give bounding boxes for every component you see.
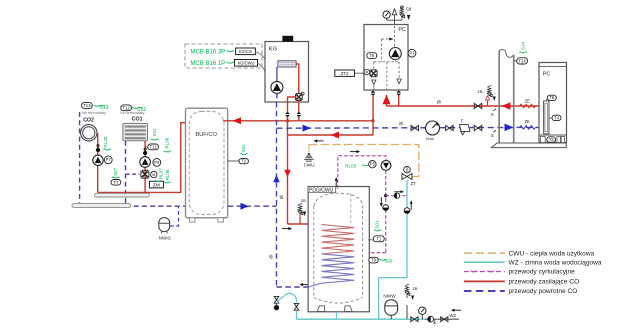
svg-text:S11: S11: [152, 128, 157, 136]
coil cold: [308, 254, 354, 287]
manifold: [387, 20, 402, 26]
valve return 1: [411, 125, 419, 130]
svg-text:Øi: Øi: [279, 195, 284, 199]
wire CO2 return: [79, 112, 81, 203]
arrow PC left port: [372, 80, 376, 85]
wire PC bottom header: [374, 60, 399, 90]
actuator ZM: [149, 181, 163, 188]
legend return line: [464, 290, 505, 292]
label RL07: [154, 168, 163, 182]
mixing valve ZT: [402, 166, 412, 179]
valve WZ: [441, 317, 448, 322]
svg-text:CWU: CWU: [304, 163, 315, 168]
filter F: [460, 119, 470, 135]
svg-text:RL05: RL05: [345, 164, 357, 169]
tap CWU: [304, 145, 313, 162]
valve return 3: [474, 125, 482, 130]
legend return text: [509, 288, 578, 295]
wire circulation into tank: [368, 252, 385, 254]
thermostat T7: [111, 180, 121, 186]
heat exchanger KG: [278, 61, 296, 67]
label S13: [94, 105, 109, 111]
pump KG: [271, 81, 283, 93]
wire CO1 supply: [144, 141, 146, 193]
thermostat T13: [82, 103, 93, 109]
svg-text:S01: S01: [374, 220, 379, 229]
wire PC loop: [382, 38, 394, 62]
arrow KG supply down: [284, 170, 291, 178]
svg-text:RL06: RL06: [165, 137, 170, 148]
svg-text:NWIG: NWIG: [159, 236, 172, 241]
wall mark S return: [491, 130, 496, 138]
wire mixer bypass: [126, 173, 140, 175]
wire KG return riser: [276, 102, 278, 287]
svg-text:T6: T6: [549, 95, 555, 100]
legend supply text: [509, 279, 580, 286]
valve fill: [294, 303, 299, 319]
wire PC outdoor supply: [387, 105, 544, 107]
manometer PC: [383, 11, 390, 20]
flow arrow coil inlet: [282, 227, 292, 230]
svg-text:PDG/CWU: PDG/CWU: [309, 187, 334, 193]
svg-text:P1: P1: [409, 51, 415, 56]
check valve cold: [404, 208, 410, 214]
flex connector ZE supply: [520, 99, 536, 108]
safety group ZB wall: [477, 86, 495, 106]
svg-text:PC: PC: [398, 27, 406, 33]
svg-text:ZB: ZB: [301, 198, 306, 203]
wire KG valve branch: [288, 97, 297, 102]
label CO2: [83, 118, 94, 124]
flow arrow CWU: [314, 139, 324, 142]
tank insulation: [314, 193, 363, 303]
svg-text:S13: S13: [99, 105, 108, 111]
tank feet: [317, 306, 352, 312]
wire WZ inlet: [425, 318, 459, 320]
svg-text:F: F: [461, 119, 464, 124]
legend circulation line: [464, 271, 505, 272]
wire cold water main: [297, 318, 426, 320]
actuator ZT2: [335, 70, 364, 76]
wire KG HX red: [296, 64, 299, 93]
svg-text:ZB: ZB: [412, 286, 417, 291]
outdoor base: [491, 143, 566, 148]
wire KG supply down: [287, 102, 289, 224]
svg-text:S02: S02: [241, 144, 246, 153]
sensor T3: [547, 137, 556, 142]
tank title: [308, 187, 336, 194]
union PC right: [396, 90, 401, 106]
svg-text:T9: T9: [371, 258, 377, 263]
arrow PC right port: [397, 79, 401, 84]
label S11: [151, 128, 159, 140]
svg-text:ZT: ZT: [411, 181, 417, 186]
svg-text:T14: T14: [518, 59, 526, 64]
safety valve ZB DHW: [298, 198, 306, 224]
tank PDG/CWU: [308, 187, 369, 312]
wire buffer return: [228, 205, 277, 207]
label S14: [519, 42, 527, 53]
svg-text:przewody cyrkulacyjne: przewody cyrkulacyjne: [509, 269, 576, 276]
pump P6: [140, 157, 151, 168]
svg-text:Øi: Øi: [437, 99, 441, 104]
wire CO1 return: [125, 141, 127, 207]
wire CWU main: [309, 145, 419, 177]
sensor T1: [373, 236, 384, 242]
arrow return: [303, 125, 312, 132]
svg-text:ZE: ZE: [525, 99, 531, 104]
wire circulation riser: [385, 170, 387, 252]
drain valve riser: [274, 296, 279, 310]
check valve makeup: [394, 193, 399, 198]
svg-text:KG/CO: KG/CO: [239, 49, 252, 54]
svg-text:T8: T8: [369, 53, 375, 58]
svg-text:WZ: WZ: [449, 313, 456, 318]
svg-text:T7: T7: [113, 180, 119, 185]
air vent CO2: [96, 145, 100, 153]
svg-text:S: S: [491, 112, 494, 117]
thermostat T12: [121, 105, 132, 111]
svg-text:RL08: RL08: [165, 169, 170, 180]
svg-text:KG/CWU: KG/CWU: [238, 61, 255, 66]
label MCB B16 1P: [191, 61, 235, 67]
label CO1: [132, 117, 143, 123]
wire KGCWU to KG: [258, 63, 266, 71]
flow arrow circulation into tank: [335, 177, 338, 187]
svg-text:RL07: RL07: [158, 168, 163, 179]
wire tank drain: [336, 312, 338, 319]
label NWIG: [159, 236, 172, 241]
wire KG HX to pump: [276, 67, 278, 82]
pump P7: [93, 155, 103, 165]
label RL05: [345, 164, 370, 169]
svg-text:P6: P6: [154, 160, 160, 165]
wire DHW coil inlet: [288, 223, 322, 225]
buffer tank BUF/CO: [186, 108, 228, 218]
junction PC supply: [371, 119, 374, 122]
svg-text:NWW: NWW: [383, 294, 396, 299]
label RL09: [103, 136, 111, 150]
safety valve ZB cold: [405, 284, 418, 319]
label Oi return: [399, 121, 403, 126]
heat pump indoor PC: [364, 25, 408, 91]
svg-text:S09: S09: [384, 259, 393, 264]
label S09: [379, 259, 393, 264]
pedestal CO1: [95, 193, 150, 197]
legend supply line: [464, 280, 505, 282]
wire PC supply drop: [372, 96, 374, 135]
svg-text:P7: P7: [106, 157, 112, 162]
valve outdoor supply: [474, 103, 482, 108]
sensor T14: [514, 58, 528, 64]
sensor T6: [546, 95, 556, 101]
label P7: [104, 156, 112, 164]
sensor T4: [549, 115, 561, 120]
wire CO1 return to buffer: [126, 205, 186, 207]
svg-text:T13: T13: [83, 103, 91, 108]
wire DHW supply run: [288, 134, 374, 136]
wire PC source riser: [386, 95, 388, 106]
svg-text:Øi: Øi: [268, 255, 273, 259]
svg-text:CO2: CO2: [83, 118, 94, 124]
svg-text:przewody powrotne CO: przewody powrotne CO: [509, 288, 578, 295]
chimney: [283, 36, 293, 41]
union PC left: [370, 90, 375, 96]
label PC indoor: [398, 27, 406, 33]
junction: [286, 119, 289, 122]
svg-text:T11: T11: [150, 145, 158, 150]
valve cold 1: [411, 317, 418, 322]
svg-text:T4: T4: [554, 115, 560, 120]
label RL08: [163, 169, 171, 183]
svg-text:KG: KG: [269, 46, 277, 52]
box KG/CWU: [235, 60, 258, 67]
svg-text:przewody zasilające CO: przewody zasilające CO: [509, 279, 580, 286]
wire fill hose: [277, 293, 296, 303]
svg-text:CO1: CO1: [132, 117, 143, 123]
arrow into buffer: [233, 117, 242, 124]
sensor stub T1: [368, 239, 373, 241]
safety valve G8: [400, 6, 405, 20]
label Oi riser: [268, 255, 273, 259]
svg-text:T2: T2: [241, 159, 247, 164]
wire circulation drop: [338, 156, 386, 189]
svg-text:CWU - ciepła woda użytkowa: CWU - ciepła woda użytkowa: [509, 250, 595, 257]
label lub termostaty CO2: [82, 111, 106, 115]
mixing valve CO1: [141, 170, 149, 178]
label RL06: [164, 137, 172, 152]
expansion vessel NWIG: [159, 218, 170, 234]
svg-text:S07: S07: [113, 167, 118, 176]
label MCB B16 3P: [191, 50, 235, 56]
legend WZ line: [464, 261, 505, 263]
pedestal CO2: [72, 204, 131, 208]
flow arrow cold up: [410, 200, 413, 210]
label P5: [369, 161, 376, 168]
svg-text:ZM: ZM: [153, 183, 160, 189]
expansion vessel NWW: [385, 300, 398, 319]
flex connector ZE return: [520, 119, 536, 129]
outdoor HX: [544, 101, 549, 134]
sensor T9: [369, 257, 378, 263]
svg-text:lub termostaty: lub termostaty: [121, 111, 145, 115]
svg-text:G8: G8: [406, 7, 412, 12]
wire KGCO to KG: [255, 52, 265, 59]
wire PC internal feed: [394, 26, 396, 48]
svg-text:MCB B16 3P: MCB B16 3P: [191, 50, 226, 56]
sensor T8: [367, 53, 377, 59]
junction makeup: [384, 194, 387, 197]
wire return main: [277, 126, 544, 129]
thermostat T11: [145, 144, 158, 150]
wire KG pump down: [276, 93, 278, 102]
svg-text:RL09: RL09: [103, 136, 108, 147]
flow arrow coil return: [300, 283, 310, 286]
svg-text:Øi: Øi: [399, 121, 403, 126]
label Oi KG: [279, 195, 284, 199]
wire cold water ZT: [379, 180, 407, 320]
label NWW: [383, 294, 396, 299]
pump P1: [389, 48, 401, 60]
heat pump outdoor PC: [539, 63, 567, 143]
radiator CO1: [123, 123, 148, 140]
buffer feet: [189, 218, 223, 222]
label P6: [153, 159, 161, 167]
svg-text:ZT2: ZT2: [341, 71, 349, 76]
wire makeup: [386, 195, 407, 197]
svg-text:ZE: ZE: [525, 119, 531, 124]
arrow supply into wall: [502, 102, 511, 110]
svg-text:BUF/CO: BUF/CO: [195, 132, 217, 138]
label WZ: [449, 309, 461, 318]
svg-text:T1: T1: [376, 236, 382, 241]
label M: [151, 171, 157, 177]
union KG pipe 1: [285, 112, 290, 116]
label KG: [269, 46, 277, 52]
svg-text:M wr: M wr: [426, 136, 434, 141]
arrow G8 discharge: [407, 15, 410, 20]
flow arrow makeup: [394, 190, 404, 193]
wall: [499, 49, 514, 143]
label Oi supply: [437, 99, 441, 104]
svg-text:S: S: [491, 133, 494, 138]
wire buffer supply drop: [98, 123, 186, 193]
wire return to coil: [277, 286, 309, 288]
manometer cold: [419, 307, 426, 319]
svg-text:ZB: ZB: [477, 89, 482, 94]
flow arrow circulation: [350, 150, 360, 153]
check valve circulation: [383, 205, 389, 211]
heat meter Mwr: [426, 121, 440, 141]
legend CWU text: [509, 250, 595, 257]
coil hot: [322, 225, 355, 254]
pump P5: [381, 161, 391, 171]
label lub termostaty CO1: [121, 111, 145, 115]
label S01: [374, 220, 382, 231]
svg-text:T3: T3: [549, 137, 555, 142]
sensor ball CO1: [143, 148, 147, 155]
label ZT: [411, 181, 417, 186]
wall mark S supply: [491, 109, 496, 117]
svg-text:P5: P5: [370, 162, 376, 167]
wire supply to buffer top: [223, 120, 373, 122]
sensor T2: [228, 158, 249, 163]
svg-text:WZ - zimna woda wodociągowa: WZ - zimna woda wodociągowa: [509, 260, 602, 267]
label PC outdoor: [543, 72, 551, 78]
wire KG pipe 2: [298, 99, 300, 121]
outdoor bottom section: [539, 135, 567, 143]
svg-text:S14: S14: [521, 42, 526, 51]
arrow KG return up: [273, 175, 279, 183]
wire PC left stub: [373, 85, 375, 90]
svg-text:MCB B16 1P: MCB B16 1P: [191, 61, 226, 67]
legend WZ text: [509, 260, 602, 267]
arrow into PC: [383, 95, 391, 105]
label P1: [408, 49, 416, 57]
label S12: [132, 107, 147, 113]
svg-text:M: M: [152, 173, 155, 177]
arrow DHW supply: [331, 132, 340, 139]
svg-text:T12: T12: [122, 105, 130, 110]
union KG pipe 2: [296, 112, 301, 116]
svg-text:lub termostaty: lub termostaty: [82, 111, 106, 115]
label G8: [406, 7, 412, 12]
legend circulation text: [509, 269, 576, 276]
arrow return into wall: [505, 124, 514, 131]
arrow buffer return: [241, 203, 250, 210]
air vent: [392, 9, 397, 20]
legend CWU line: [464, 252, 505, 254]
valve KG: [295, 92, 304, 100]
label CWU: [304, 163, 315, 168]
valve return 2: [446, 125, 454, 130]
label S02: [240, 144, 248, 155]
mixing valve PC: [364, 69, 377, 77]
box KG/CO: [236, 48, 256, 55]
MCB breaker box: [185, 44, 262, 68]
wire NWIG connection: [170, 206, 179, 226]
heating circle CO2: [81, 125, 97, 141]
svg-text:PC: PC: [543, 72, 551, 78]
label S07: [112, 167, 120, 178]
boiler KG: [265, 42, 309, 103]
check valve WZ: [428, 316, 437, 325]
arrow circulation down: [380, 197, 383, 207]
wire CO2 supply: [97, 133, 99, 192]
